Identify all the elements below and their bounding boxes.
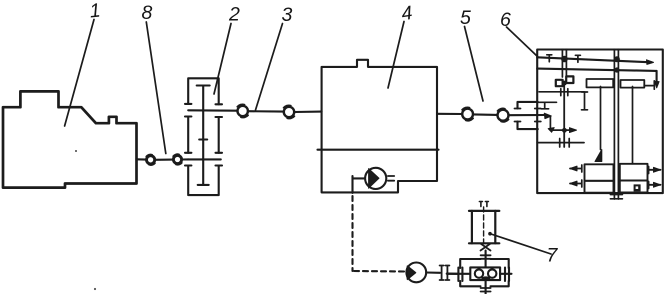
pump P in box 4 [365, 168, 386, 189]
input flow arrowhead on shaft 5 [544, 113, 551, 118]
stray speck [94, 288, 96, 290]
svg-text:5: 5 [460, 7, 471, 29]
gear bar rectangle right of shaft B [621, 80, 645, 88]
output shaft B double line [614, 50, 618, 200]
differential housing right lower [620, 181, 648, 193]
tick marks on top shaft [547, 55, 581, 63]
pump rotor filled wedge [369, 169, 379, 189]
svg-text:6: 6 [500, 9, 511, 31]
dashed drive line horizontal [354, 270, 405, 273]
gearbox 2 upper shaft [188, 109, 237, 111]
vertical shaft bearing bars above worm box [481, 255, 491, 258]
wire shaft 3 middle [248, 110, 284, 113]
inner ledge line [538, 102, 557, 109]
axle top shaft upper arrowhead [647, 60, 654, 65]
coupling 8 disc b [173, 155, 181, 163]
leader line 3 [256, 24, 283, 111]
motor circle lower [406, 263, 426, 283]
engine 1 outline [3, 91, 137, 187]
worm wheel inner housing [470, 267, 500, 280]
differential housing right upper [620, 164, 648, 181]
vertical shaft bearing bars below worm box [481, 288, 491, 292]
leader line 5 [465, 27, 484, 102]
shaft B bottom bearing bars [610, 195, 622, 199]
coupling on shaft 5 disc a [462, 109, 473, 120]
input flow arrow vertical [549, 117, 551, 130]
dashed drive line vertical [351, 196, 353, 271]
differential housing left upper [585, 164, 614, 181]
bevel pinion filled wedge [595, 150, 602, 162]
mesh blob flow crossing [562, 128, 567, 133]
wire pump suction line [353, 176, 366, 193]
svg-text:7: 7 [547, 245, 559, 267]
brake block filled square [634, 184, 641, 191]
countershaft bearing ticks [561, 89, 568, 96]
clutch symbol on shaft A [556, 76, 574, 86]
drum top stub ticks [479, 202, 488, 207]
shaft 5 from box 4 [437, 113, 462, 115]
right arrow bearing ticks [648, 167, 650, 189]
svg-text:8: 8 [142, 2, 153, 24]
wire horizontal shaft through worm box [447, 273, 512, 275]
leader line 6 [507, 27, 538, 57]
axle right return hook arrow [655, 81, 660, 87]
gearbox 2 central gear shaft [197, 86, 210, 185]
gear bar right stub shaft [644, 85, 653, 87]
coupling on shaft 3 disc b [284, 107, 294, 117]
bearing support box walls [518, 102, 538, 129]
gear bar right stub tick [653, 81, 655, 89]
wire shaft 5 into bearing box [509, 114, 545, 116]
leader line 2 [214, 24, 231, 95]
pump port marks [388, 176, 394, 181]
drop link right [632, 87, 634, 164]
coupling on shaft 5 disc b [498, 110, 509, 121]
bearing support cap ticks [515, 109, 541, 122]
wire coupling to worm box [447, 273, 459, 275]
wire shaft 5 middle [473, 113, 497, 116]
engine output shaft [137, 158, 147, 160]
countershaft bearing line [539, 92, 588, 110]
intermediate shaft A double line [562, 50, 566, 78]
lower cross line bearing ticks [560, 139, 570, 148]
gearbox 2 bearing caps left wall [185, 104, 191, 166]
drum centre dash line [483, 207, 485, 243]
half shaft arrow right upper [649, 169, 661, 171]
universal joint cross [481, 244, 491, 251]
axle top shaft lower [537, 69, 656, 71]
left arrow bearing ticks [581, 165, 583, 187]
measuring drum 7 right wall [494, 211, 496, 243]
differential housing left lower [585, 181, 614, 193]
coupling 8 disc a [147, 156, 155, 164]
input flow corner arrowhead [548, 128, 554, 133]
gearbox 2 lower shaft [188, 158, 221, 160]
wire vertical shaft through worm box [485, 251, 487, 295]
measuring drum 7 flange top [469, 210, 499, 212]
svg-text:1: 1 [88, 0, 101, 23]
measuring drum 7 left wall [471, 211, 473, 243]
gearbox 2 bearing caps right wall [216, 104, 223, 165]
drive axle unit 6 outer casing [537, 50, 663, 194]
mesh blob shaft A top [561, 56, 568, 63]
wire motor to coupling [426, 271, 440, 273]
coupling bars lower drive [440, 266, 450, 281]
engine interior speck [75, 150, 77, 152]
svg-text:4: 4 [400, 2, 414, 25]
leader line 7 [491, 234, 551, 254]
worm mesh blob [481, 276, 490, 280]
mesh blob clutch [562, 81, 567, 86]
intermediate shaft A single lower line [563, 85, 565, 147]
svg-text:3: 3 [282, 4, 293, 26]
load box 4 outline [322, 60, 437, 193]
mesh blobs shaft B [614, 56, 620, 62]
worm wheel circle b [488, 269, 496, 277]
half shaft arrow left upper [570, 168, 582, 170]
wire shaft coupling to gearbox [182, 158, 189, 160]
drop link left [600, 87, 602, 150]
axle right return line [656, 71, 658, 85]
wire shaft 3 to box 4 [294, 111, 321, 114]
load box 4 mid horizontal line [318, 149, 439, 151]
worm wheel circle a [475, 269, 483, 277]
leader line 8 [146, 22, 166, 154]
worm gear box bearing ticks right [505, 268, 509, 282]
leader line 4 [388, 22, 404, 89]
flow arrow horizontal [550, 129, 574, 131]
coupling on shaft 3 disc a [238, 106, 248, 116]
svg-text:2: 2 [228, 4, 240, 26]
half shaft arrow left lower [570, 183, 582, 185]
lower cross line [537, 142, 584, 144]
leader line 1 [65, 20, 94, 127]
worm gear box bearing ticks left [458, 268, 462, 282]
gearbox 2 casing [188, 78, 219, 195]
gear bar rectangle left of shaft B [587, 79, 614, 87]
leader 7 end dot [488, 232, 492, 236]
wire shaft between coupling 8 discs [155, 159, 174, 161]
axle top shaft upper [537, 57, 651, 62]
measuring drum 7 flange bottom [469, 242, 499, 244]
motor rotor filled wedge [407, 266, 416, 280]
worm gear box 7 outer [460, 259, 509, 286]
half shaft arrow right lower [649, 184, 661, 186]
